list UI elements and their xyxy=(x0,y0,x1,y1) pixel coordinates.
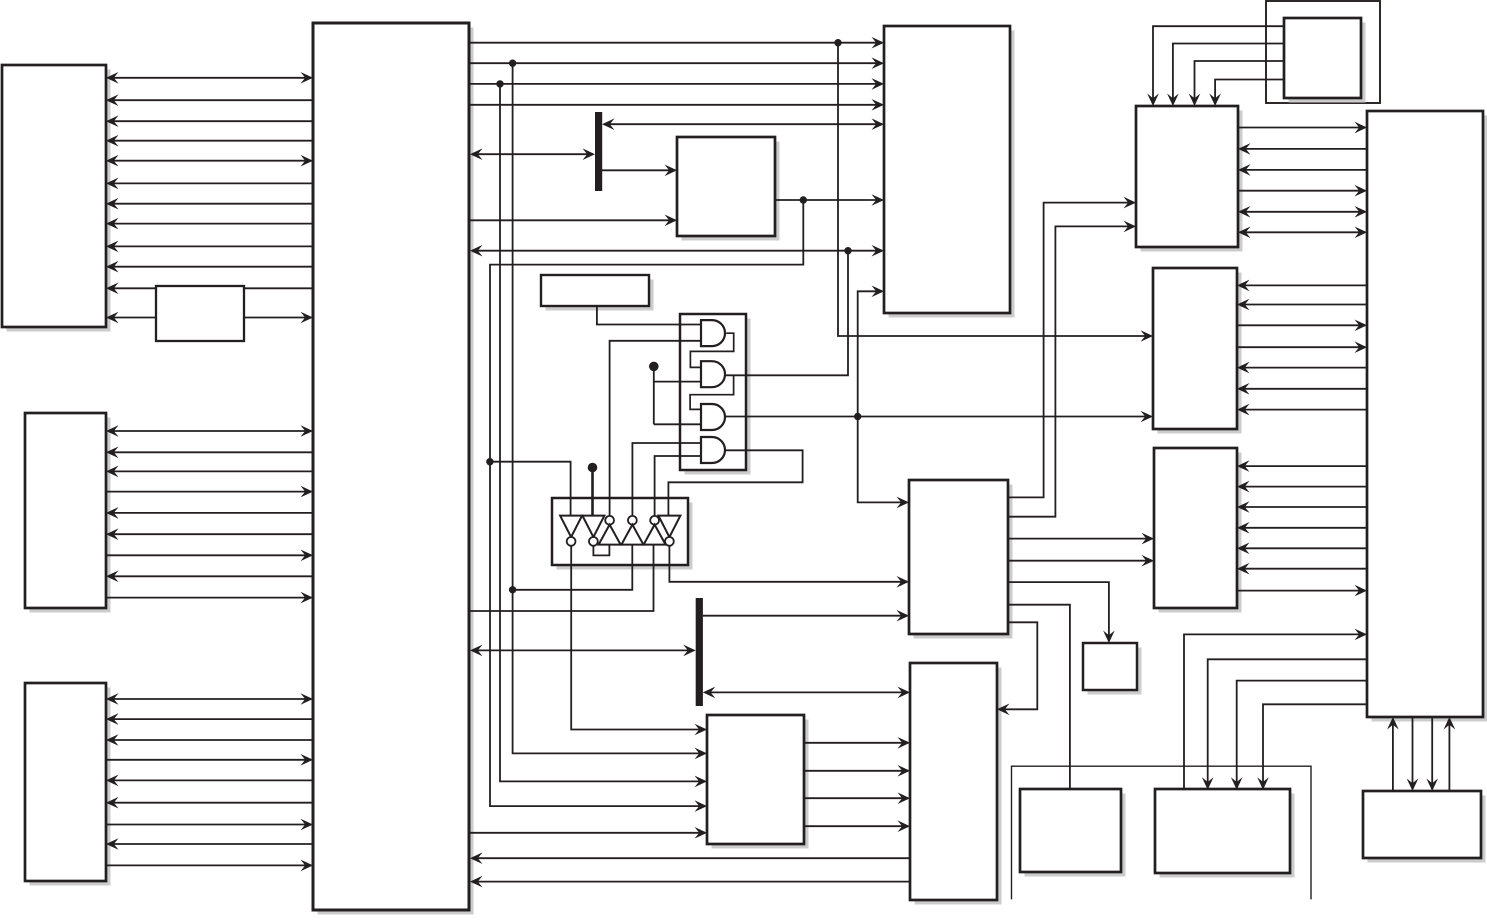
wire xyxy=(1209,80,1284,107)
wire xyxy=(1008,221,1136,517)
wire xyxy=(106,550,313,562)
block U10 xyxy=(909,480,1013,639)
wire xyxy=(602,165,677,177)
wire xyxy=(1426,717,1438,791)
block U22 xyxy=(156,286,244,341)
wire xyxy=(597,306,701,325)
block U7 xyxy=(884,26,1015,318)
wire xyxy=(1237,362,1367,374)
wire xyxy=(1008,533,1154,545)
block U20 xyxy=(1155,789,1295,878)
block U17 xyxy=(1154,448,1242,613)
junction dot xyxy=(800,196,807,203)
wire xyxy=(106,241,313,253)
wire xyxy=(1238,206,1367,218)
wire xyxy=(1237,543,1367,555)
block U14 outer frame xyxy=(1266,1,1380,103)
wire xyxy=(804,820,910,832)
wire xyxy=(1238,164,1367,176)
inverter U9C xyxy=(599,516,621,545)
wire xyxy=(1008,555,1154,567)
wire xyxy=(804,765,910,777)
wire xyxy=(1238,227,1367,239)
wire xyxy=(654,423,701,425)
wire xyxy=(703,610,909,622)
junction dot xyxy=(854,413,861,420)
block U6 xyxy=(677,137,780,241)
wire xyxy=(470,37,884,49)
wire xyxy=(106,592,313,604)
inverter U9F xyxy=(658,516,680,546)
wire xyxy=(593,545,609,556)
wire xyxy=(1008,582,1115,643)
block U18 xyxy=(1367,111,1487,722)
wire xyxy=(1237,522,1367,534)
wire xyxy=(470,99,884,111)
junction dot xyxy=(496,80,503,87)
wire xyxy=(106,466,313,478)
wire xyxy=(106,447,313,459)
wire xyxy=(1231,681,1367,790)
junction dot xyxy=(509,60,516,67)
wire xyxy=(1238,122,1367,134)
block U3 xyxy=(25,413,111,613)
wire xyxy=(106,693,313,705)
wire xyxy=(106,312,156,324)
wire xyxy=(1237,563,1367,575)
wire xyxy=(106,486,313,498)
wire xyxy=(106,713,313,725)
wire xyxy=(1167,44,1284,107)
wire xyxy=(470,245,884,257)
wire xyxy=(1237,341,1367,353)
wire xyxy=(470,827,707,839)
wire xyxy=(1184,629,1367,790)
block U13 xyxy=(1083,643,1142,695)
wire xyxy=(725,411,1153,423)
wire xyxy=(602,118,884,130)
wire xyxy=(571,546,707,735)
wire xyxy=(591,468,594,516)
wire xyxy=(470,57,884,69)
wire xyxy=(653,366,655,424)
wire xyxy=(1407,717,1419,791)
wire xyxy=(1237,299,1367,311)
wire xyxy=(1257,704,1367,790)
bus bar B1 xyxy=(595,112,602,191)
wire xyxy=(106,507,313,519)
wire xyxy=(804,792,910,804)
junction dot xyxy=(509,586,516,593)
wire xyxy=(106,797,313,809)
wire xyxy=(106,218,313,230)
wire xyxy=(106,155,313,167)
wire xyxy=(1189,61,1284,106)
wire xyxy=(470,545,654,611)
wire xyxy=(106,94,313,106)
wire xyxy=(106,261,313,273)
wire xyxy=(997,622,1037,715)
wire xyxy=(513,63,707,759)
wire xyxy=(106,775,313,787)
block U16 xyxy=(1153,268,1242,434)
wire xyxy=(106,198,313,210)
wire xyxy=(106,734,313,746)
wire xyxy=(690,333,733,367)
AND gate U8A xyxy=(701,320,725,346)
wire xyxy=(1237,320,1367,332)
wire xyxy=(690,375,734,409)
block U11 xyxy=(707,715,809,849)
wire xyxy=(1237,501,1367,513)
wire xyxy=(106,178,313,190)
wire xyxy=(1238,185,1367,197)
wire xyxy=(106,135,313,147)
wire xyxy=(1387,717,1399,791)
junction dot xyxy=(486,458,493,465)
terminal dot xyxy=(649,362,659,372)
inverter U9A xyxy=(560,516,582,546)
wire xyxy=(725,251,849,376)
inverter U9B xyxy=(582,516,604,546)
junction dot xyxy=(834,39,841,46)
block U5 xyxy=(541,275,654,311)
block U8 (AND gate array) xyxy=(680,314,751,475)
wire xyxy=(775,194,884,206)
block U19 xyxy=(1020,789,1126,877)
wire xyxy=(1237,404,1367,416)
wire xyxy=(1147,26,1284,106)
block U12 xyxy=(910,663,1002,905)
wire xyxy=(490,462,571,516)
AND gate U8D xyxy=(701,437,725,463)
group boundary frame xyxy=(1012,766,1312,899)
wire xyxy=(1237,585,1367,597)
wire xyxy=(106,838,313,850)
wire xyxy=(1237,280,1367,292)
inverter U9E xyxy=(644,516,666,545)
wire xyxy=(858,286,909,509)
AND gate U8C xyxy=(701,404,725,430)
wire xyxy=(470,876,910,888)
wire xyxy=(513,545,633,590)
AND gate U8B xyxy=(701,361,725,387)
block U15 xyxy=(1136,106,1243,252)
wire xyxy=(1238,143,1367,155)
terminal dot xyxy=(588,463,598,473)
wire xyxy=(838,43,1153,342)
wire xyxy=(632,443,701,515)
block U4 xyxy=(25,683,111,886)
wire xyxy=(1237,460,1367,472)
wire xyxy=(668,450,802,515)
wire xyxy=(500,84,707,787)
wire xyxy=(106,283,313,295)
wire xyxy=(1008,197,1136,498)
wire xyxy=(703,687,910,699)
wire xyxy=(244,312,313,324)
wire xyxy=(669,546,909,587)
block U2 xyxy=(2,65,111,332)
wire xyxy=(804,737,910,749)
wire xyxy=(1202,659,1367,790)
wire xyxy=(106,754,313,766)
wire xyxy=(655,456,701,515)
block U9 (buffer array) xyxy=(552,498,693,570)
junction dot xyxy=(844,247,851,254)
wire xyxy=(610,341,701,516)
wire xyxy=(106,528,313,540)
wire xyxy=(106,425,313,437)
wire xyxy=(470,852,910,864)
wire xyxy=(106,571,313,583)
wire xyxy=(470,645,696,657)
wire xyxy=(106,115,313,127)
wire xyxy=(106,72,313,84)
wire xyxy=(106,860,313,872)
block U1 (big block) xyxy=(313,23,474,915)
wire xyxy=(1237,383,1367,395)
wire xyxy=(1008,605,1070,790)
wire xyxy=(1237,481,1367,493)
wire xyxy=(470,215,677,227)
wire xyxy=(106,819,313,831)
wire xyxy=(470,148,595,160)
bus bar B2 xyxy=(696,598,703,706)
wire xyxy=(490,200,803,812)
inverter U9D xyxy=(621,516,643,545)
wire xyxy=(654,381,701,383)
wire xyxy=(470,78,884,90)
block U14 xyxy=(1284,18,1366,103)
block U21 xyxy=(1363,791,1486,863)
wire xyxy=(1444,717,1456,791)
